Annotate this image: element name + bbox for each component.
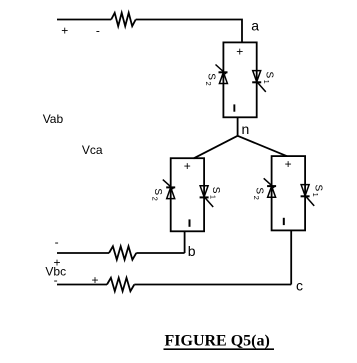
svg-text:S1: S1 bbox=[209, 187, 222, 199]
wire resistor to node b bbox=[136, 252, 184, 254]
svg-text:S2: S2 bbox=[204, 73, 217, 85]
svg-text:S2: S2 bbox=[252, 187, 265, 199]
svg-text:+: + bbox=[184, 159, 191, 173]
thyristor S1 (top box, right edge, pointing down) bbox=[252, 71, 266, 92]
label - (left box, rotated minus) bbox=[189, 219, 191, 226]
thyristor S2 (right box, left edge, pointing up) bbox=[264, 178, 276, 197]
svg-text:b: b bbox=[188, 243, 196, 259]
thyristor module box left (b-n) bbox=[171, 158, 204, 231]
thyristor S2 (top box, left edge, pointing up) bbox=[216, 65, 228, 84]
thyristor module box top (a-n) bbox=[223, 42, 256, 117]
svg-text:FIGURE Q5(a): FIGURE Q5(a) bbox=[165, 333, 270, 350]
resistor (b line) bbox=[109, 246, 136, 259]
svg-text:+: + bbox=[61, 24, 68, 38]
wire Vab top-left segment bbox=[57, 19, 111, 21]
svg-text:-: - bbox=[96, 23, 100, 37]
wire from top box bottom to node n bbox=[237, 117, 239, 136]
label - (right box, rotated minus) bbox=[283, 218, 285, 225]
svg-text:-: - bbox=[54, 273, 58, 287]
svg-text:Vca: Vca bbox=[82, 143, 103, 157]
thyristor module box right (c-n) bbox=[272, 156, 306, 230]
svg-text:S1: S1 bbox=[262, 72, 275, 84]
svg-text:S1: S1 bbox=[311, 185, 324, 197]
resistor (Vab line) bbox=[111, 13, 136, 26]
wire Vbc c-line left segment bbox=[57, 284, 107, 286]
svg-text:S2: S2 bbox=[150, 188, 163, 200]
wire diagonal n to right box bbox=[238, 136, 287, 156]
wire diagonal n to left box bbox=[194, 136, 238, 159]
wire from right box bottom to node c bbox=[290, 230, 292, 284]
svg-text:a: a bbox=[251, 18, 259, 34]
svg-text:+: + bbox=[91, 273, 98, 287]
thyristor S1 (left box, right edge, pointing down) bbox=[200, 186, 214, 207]
svg-text:+: + bbox=[285, 157, 292, 171]
thyristor S2 (left box, left edge, pointing up) bbox=[163, 180, 175, 199]
wire from left box bottom to node b bbox=[184, 231, 186, 253]
svg-text:n: n bbox=[242, 121, 250, 137]
resistor (c line) bbox=[107, 278, 134, 291]
wire resistor to node c bbox=[134, 284, 291, 286]
thyristor S1 (right box, right edge, pointing down) bbox=[301, 185, 315, 206]
wire from resistor to corner above node a bbox=[136, 20, 242, 43]
svg-text:c: c bbox=[296, 278, 303, 294]
caption underline bbox=[164, 348, 275, 350]
svg-text:+: + bbox=[236, 45, 243, 59]
wire Vbc b-line left segment bbox=[57, 252, 109, 254]
label - (top box, rotated minus) bbox=[233, 104, 235, 111]
svg-text:-: - bbox=[55, 235, 59, 249]
svg-text:Vab: Vab bbox=[43, 112, 64, 126]
